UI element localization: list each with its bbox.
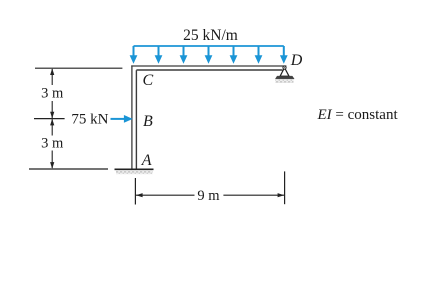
dimension extension line at A level [29,168,108,170]
dimension extension line at B level [34,118,65,120]
pin support at D (pin circle) [283,66,286,69]
label 9 m [197,188,220,204]
node A label [141,152,152,169]
svg-text:D: D [290,52,303,69]
svg-text:A: A [141,152,152,169]
fixed support at A (hatch) [116,171,153,175]
svg-text:3 m: 3 m [41,136,64,152]
pin support at D (base plate) [275,76,294,79]
svg-text:C: C [143,72,154,89]
distributed load 25 kN/m (top line) [134,45,284,47]
dimension 9 m extension line (right, below D) [284,171,286,204]
svg-text:75 kN: 75 kN [71,112,108,128]
dimension extension line at C level [35,67,122,69]
node B label [143,113,153,130]
frame member column AC [132,65,137,169]
dimension line 3 m (top segment C to B) [50,68,54,118]
pin support at D (triangle) [280,68,289,77]
distributed load arrows [130,46,287,63]
node C label [143,72,154,89]
label 25 kN/m [183,27,238,44]
node D label [290,52,303,69]
label 3 m (top) [41,86,64,102]
label 75 kN [71,112,108,128]
svg-text:25 kN/m: 25 kN/m [183,27,238,44]
svg-text:EI = constant: EI = constant [317,107,399,123]
fixed support at A (base line) [115,168,154,170]
force arrow 75 kN [111,116,132,122]
svg-text:9 m: 9 m [197,188,220,204]
frame member beam CD [131,66,286,70]
svg-text:3 m: 3 m [41,86,64,102]
dimension line 3 m (bottom segment B to A) [50,119,54,169]
label 3 m (bottom) [41,136,64,152]
dimension line 9 m [136,193,284,197]
label EI = constant [317,107,399,123]
svg-text:B: B [143,113,153,130]
dimension 9 m extension line (left, below A) [134,178,136,205]
pin support at D (hatch) [275,80,293,83]
